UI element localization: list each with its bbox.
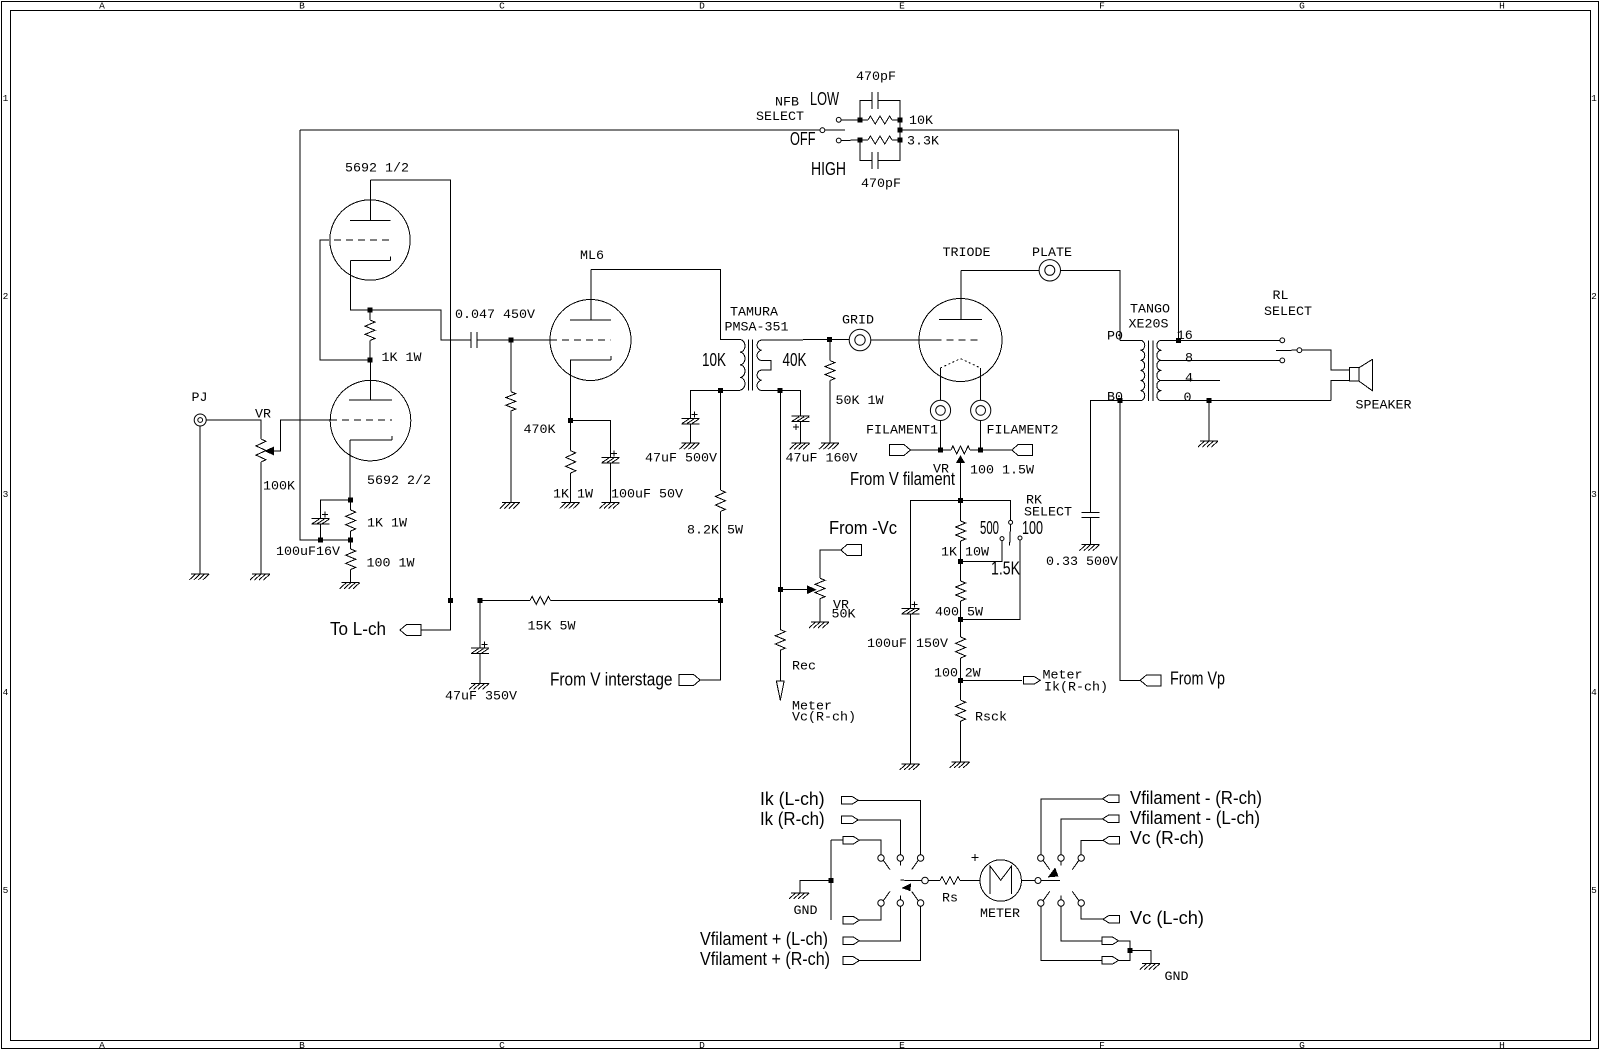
arrow to meter Vc (open) (776, 681, 784, 700)
label METER (980, 907, 1020, 922)
label To L-ch (330, 619, 386, 639)
label Meter (Vc) (792, 700, 832, 715)
resistor 400 5W (956, 561, 966, 619)
tap label 8 (1185, 352, 1193, 367)
wire P0 lead (1120, 339, 1140, 341)
label TAMURA (730, 306, 778, 321)
switch SW-NFB throw LOW (836, 117, 841, 122)
svg-text:3: 3 (1591, 489, 1597, 500)
label Ik (L-ch) (760, 789, 825, 809)
ground (meter GND right) (1140, 964, 1160, 970)
wire bottom flag to contact (859, 906, 881, 920)
meter + polarity mark (972, 854, 979, 861)
wire B0 to 0.33 cap branch (1091, 401, 1121, 513)
junction 0 tap ground node (1207, 398, 1212, 403)
junction T1 secondary bottom node (778, 388, 783, 393)
switch SW-A contact stubs (883, 860, 918, 900)
wire Vfil+L to contact (859, 906, 900, 941)
junction 47uF 350V node (478, 598, 483, 603)
wire meter to SW-B pole (1021, 880, 1035, 882)
svg-text:E: E (899, 1040, 905, 1050)
junction GRID node (827, 337, 832, 342)
wire contact to GND tag upper (1061, 906, 1103, 941)
wire 0.33 cap to ground (1090, 518, 1092, 545)
wire GRID node to terminal (830, 339, 850, 341)
value 47uF 350V (445, 690, 517, 705)
switch SW-A lever arrow (903, 884, 911, 891)
svg-text:HIGH: HIGH (811, 159, 846, 179)
junction RC network bottom-right (898, 138, 903, 143)
svg-text:H: H (1499, 1, 1505, 12)
switch SW-A pole contact (922, 877, 929, 884)
switch SW-A contact 2 (897, 855, 903, 861)
switch SW-A contact 4 (878, 900, 884, 906)
connector flag Meter Ik(R-ch) (1024, 677, 1040, 685)
wire 100uF 150V to ground (910, 614, 912, 764)
svg-text:P0: P0 (1107, 330, 1123, 345)
junction RC network top-right (898, 118, 903, 123)
wire Ik L-ch to contact (858, 800, 920, 855)
switch SW-A contact 5 (897, 900, 903, 906)
svg-text:2: 2 (1591, 291, 1597, 302)
wire 47uF 500V to ground (690, 424, 692, 443)
wire 0 tap rail (1161, 400, 1331, 402)
wire top flag to contact (859, 840, 881, 855)
value 470pF (upper) (856, 70, 896, 85)
svg-text:100: 100 (1022, 518, 1043, 538)
switch SW-RK throw 100 (1018, 536, 1022, 540)
wire cathode node to RK switch pole (961, 500, 1011, 520)
svg-text:5692 1/2: 5692 1/2 (345, 162, 409, 177)
svg-text:Ik(R-ch): Ik(R-ch) (1044, 681, 1108, 696)
value 47uF 160V (786, 452, 858, 467)
label LOW (810, 89, 839, 109)
junction B+ node (To L-ch) (448, 598, 453, 603)
resistor 1K 10W (956, 500, 966, 561)
wire LOW throw to RC network (841, 119, 860, 121)
switch SW-RL throw 16 (1280, 338, 1285, 343)
wire 0 tap to ground (1208, 401, 1210, 441)
label VR (50K) (833, 599, 849, 614)
wire B0 to From Vp flag (1120, 401, 1140, 681)
svg-text:2W: 2W (965, 667, 981, 682)
svg-text:SPEAKER: SPEAKER (1356, 399, 1412, 414)
svg-text:Ik (R-ch): Ik (R-ch) (760, 809, 825, 829)
svg-text:TAMURA: TAMURA (730, 306, 778, 321)
wire contact to GND tag lower (1041, 906, 1103, 960)
switch SW-B contact 4 (1038, 900, 1044, 906)
value 40K (secondary) (783, 350, 807, 370)
label SPEAKER (1356, 399, 1412, 414)
svg-text:8.2K 5W: 8.2K 5W (687, 524, 743, 539)
wire 100uF 50V to ground (610, 463, 612, 503)
wire To L-ch flag (421, 600, 450, 630)
svg-text:1K 1W: 1K 1W (382, 351, 422, 366)
resistor 100 2W (956, 620, 966, 681)
wire ML6 plate to interstage primary (591, 269, 740, 339)
label From V interstage (550, 670, 673, 690)
svg-text:5692 2/2: 5692 2/2 (367, 474, 431, 489)
wire SW-A pole to Rs (928, 880, 940, 882)
wire 5692 2/2 cathode lead (349, 440, 351, 500)
junction V1b cathode resistor bottom (348, 538, 353, 543)
resistor Rs (940, 877, 960, 885)
label GND (left) (794, 904, 818, 919)
svg-text:FILAMENT1: FILAMENT1 (866, 424, 938, 439)
tap label 4 (1185, 372, 1193, 387)
switch SW-NFB pole contact (820, 128, 825, 133)
svg-text:A: A (99, 1040, 105, 1050)
wire to Meter Ik flag (961, 679, 1023, 681)
capacitor 47uF 350V (471, 642, 489, 654)
svg-text:470pF: 470pF (861, 177, 901, 192)
connector flag GND feed (top) (843, 836, 860, 844)
value 1K 1W (V1b) (367, 517, 407, 532)
wire 500 throw to node (961, 541, 1002, 562)
speaker (1349, 359, 1372, 391)
connector flag Vfilament + (L-ch) (843, 937, 860, 945)
label Meter (Ik) (1043, 669, 1083, 684)
wire PLATE terminal to OPT P0 (1061, 270, 1121, 340)
wire T1 secondary bottom down to wiper node (779, 391, 781, 590)
ground (100 1W) (340, 583, 360, 589)
connector flag meter GND (lower) (1102, 957, 1119, 965)
wiper arrow VR 100K (266, 447, 274, 454)
tube ML6 (V2) (550, 269, 631, 380)
svg-text:8: 8 (1185, 352, 1193, 367)
svg-text:From Vp: From Vp (1170, 669, 1225, 689)
resistor 100 1W (346, 540, 356, 583)
connector flag Vfilament - (R-ch) (1103, 795, 1120, 803)
wire flag to FILAMENT1 node (911, 449, 941, 451)
wire T2 primary bottom to B0 (1120, 400, 1140, 402)
wire ML6 cathode lead (569, 360, 572, 421)
ground (VR 100K) (250, 574, 270, 580)
label Rs (942, 892, 958, 907)
svg-text:100: 100 (934, 667, 958, 682)
wire to 47uF 160V cap (780, 391, 801, 417)
value 47uF 500V (645, 452, 717, 467)
wire HIGH throw to RC network (841, 139, 860, 142)
label P0 (1107, 330, 1123, 345)
wire T1 secondary top to GRID node (762, 339, 830, 341)
connector flag Ik (L-ch) (842, 797, 859, 805)
svg-text:Vfilament + (L-ch): Vfilament + (L-ch) (700, 929, 828, 949)
ground (meter GND left) (789, 893, 809, 899)
wire lower GND tag to junction (1119, 951, 1130, 961)
ground (50K 1W) (819, 443, 839, 449)
transformer T1 secondary winding with tap step (757, 340, 771, 391)
ground (470K) (500, 503, 520, 509)
label 5692 2/2 (367, 474, 431, 489)
wire Ik R-ch to contact (858, 820, 900, 855)
switch SW-B contact 3 (1078, 855, 1084, 861)
junction 1K-10W / 400-5W node (958, 559, 963, 564)
switch SW-A contact 6 (917, 900, 923, 906)
svg-text:0: 0 (1184, 391, 1192, 406)
wire NFB output to OPT 16-ohm tap (900, 130, 1179, 340)
wiper arrow VR 50K (808, 586, 816, 593)
svg-text:TRIODE: TRIODE (943, 246, 991, 261)
svg-text:Vfilament - (L-ch): Vfilament - (L-ch) (1130, 808, 1260, 828)
value 470pF (lower) (861, 177, 901, 192)
svg-text:GRID: GRID (842, 314, 874, 329)
switch SW-B contact 1 (1038, 855, 1044, 861)
switch SW-RL pole contact (1297, 348, 1302, 353)
terminal FILAMENT2 (971, 400, 991, 420)
switch SW-RL lever (1276, 349, 1297, 351)
label GRID (842, 314, 874, 329)
label Vfilament - (L-ch) (1130, 808, 1260, 828)
wire 10K-3.3K right bus (899, 120, 901, 140)
svg-text:150V: 150V (916, 637, 948, 652)
terminal GRID (849, 329, 871, 351)
junction ML6 grid node (509, 338, 514, 343)
svg-text:0.047 450V: 0.047 450V (455, 308, 535, 323)
ground (100uF 150V) (900, 764, 920, 770)
label VR (hum pot) (933, 463, 949, 478)
label OFF (790, 129, 816, 149)
value 1K 1W (ML6) (553, 488, 593, 503)
svg-text:RL: RL (1273, 289, 1289, 304)
connector flag From V interstage (679, 675, 700, 686)
value 100 1.5W (970, 464, 1034, 479)
svg-text:Rec: Rec (792, 660, 816, 675)
svg-text:GND: GND (794, 904, 818, 919)
wire GRID terminal to TRIODE grid (871, 339, 935, 341)
capacitor 100uF 50V (602, 451, 620, 464)
value 150V part2 (916, 637, 948, 652)
wire RL pole to speaker (1302, 350, 1350, 370)
svg-text:100uF 50V: 100uF 50V (611, 488, 683, 503)
connector flag From V filament (right) (1012, 445, 1033, 456)
svg-text:5: 5 (1591, 885, 1597, 896)
connector flag Vfilament - (L-ch) (1103, 815, 1120, 823)
wire from upper 470pF cap (878, 101, 900, 121)
svg-text:Vfilament - (R-ch): Vfilament - (R-ch) (1130, 788, 1262, 808)
switch SW-B contact 6 (1078, 900, 1084, 906)
label Vc(R-ch) (792, 711, 856, 726)
label HIGH (811, 159, 846, 179)
switch SW-A contact 1 (878, 855, 884, 861)
switch SW-RK pole contact (1009, 520, 1013, 524)
svg-text:470K: 470K (524, 423, 556, 438)
junction FILAMENT1 node (938, 448, 943, 453)
svg-text:Vc(R-ch): Vc(R-ch) (792, 711, 856, 726)
label Rec (792, 660, 816, 675)
capacitor 47uF 500V (682, 412, 700, 425)
svg-text:D: D (699, 1040, 705, 1050)
svg-text:F: F (1099, 1, 1105, 12)
svg-text:E: E (899, 1, 905, 12)
ground (0.33 500V) (1080, 545, 1100, 551)
label Vc (R-ch) (1130, 828, 1204, 848)
svg-text:3.3K: 3.3K (907, 135, 939, 150)
wire ML6 cathode to 100uF 50V (571, 421, 611, 458)
label SELECT (RK) (1024, 506, 1072, 521)
ground (47uF 160V) (790, 443, 810, 449)
wire TRIODE plate to PLATE terminal (961, 269, 1039, 271)
junction V1a grid / V2 plate node (368, 358, 373, 363)
svg-text:470pF: 470pF (856, 70, 896, 85)
svg-text:4: 4 (1185, 372, 1193, 387)
connector flag meter GND (upper) (1102, 937, 1119, 945)
label Rsck (975, 711, 1007, 726)
value 1K 10W (941, 546, 989, 561)
wire 16 tap to RL contact (1161, 339, 1280, 341)
connector flag Vc (L-ch) (1103, 915, 1120, 923)
label Vc (L-ch) (1130, 908, 1204, 928)
junction 100uF16V bottom (318, 538, 323, 543)
svg-text:XE20S: XE20S (1129, 318, 1169, 333)
svg-text:500: 500 (980, 518, 999, 538)
svg-text:C: C (499, 1, 505, 12)
svg-text:47uF 350V: 47uF 350V (445, 690, 517, 705)
ground (Rsck) (950, 762, 970, 768)
label B0 (1107, 391, 1123, 406)
switch SW-B lever (1041, 879, 1060, 881)
ground (VR 50K) (809, 622, 829, 628)
svg-text:C: C (499, 1040, 505, 1050)
svg-text:100uF: 100uF (867, 637, 907, 652)
svg-text:2: 2 (3, 291, 9, 302)
transformer T1 core (748, 340, 752, 391)
value 100 2W part2 (965, 667, 981, 682)
switch SW-B lever arrow (1049, 869, 1058, 877)
svg-text:Vfilament + (R-ch): Vfilament + (R-ch) (700, 949, 830, 969)
connector flag Vc (R-ch) (1103, 837, 1120, 845)
svg-text:From V interstage: From V interstage (550, 670, 673, 690)
label SELECT (NFB) (756, 110, 804, 125)
connector flag From V filament (left) (890, 445, 911, 456)
svg-text:METER: METER (980, 907, 1020, 922)
value 100uF 50V (611, 488, 683, 503)
wire 100uF16V to bottom node (320, 524, 322, 540)
junction RC network bottom-left (858, 138, 863, 143)
label From -Vc (829, 518, 897, 538)
svg-text:FILAMENT2: FILAMENT2 (987, 424, 1059, 439)
svg-text:4: 4 (1591, 687, 1597, 698)
switch SW-NFB throw HIGH (836, 138, 841, 143)
junction From V interstage node (718, 598, 723, 603)
resistor 15K 5W (480, 596, 720, 604)
potentiometer VR 50K (815, 578, 825, 622)
svg-text:3: 3 (3, 489, 9, 500)
wire coupling cap to ML6 grid node (477, 339, 511, 341)
svg-text:B: B (299, 1040, 305, 1050)
wire ML6 grid lead (511, 339, 550, 341)
svg-text:VR: VR (255, 408, 271, 423)
capacitor 100uF16V (312, 512, 330, 525)
label ML6 (580, 249, 604, 264)
wire to 47uF 500V cap (691, 391, 721, 419)
wire Rs to meter (960, 880, 980, 882)
resistor 1K 1W (V1b cathode) (346, 500, 356, 540)
wire T1 primary bottom (721, 390, 740, 392)
tube TRIODE (V3 output) (919, 270, 1002, 381)
junction RC network top-left (858, 118, 863, 123)
resistor 50K 1W (825, 340, 835, 444)
svg-text:10K: 10K (702, 350, 726, 370)
tap label 16 (1177, 329, 1193, 344)
connector flag GND feed (bottom) (843, 916, 860, 924)
svg-text:47uF 160V: 47uF 160V (786, 452, 858, 467)
svg-text:5: 5 (3, 885, 9, 896)
value 3.3K (907, 135, 939, 150)
junction 400-5W / 100-2W node (958, 617, 963, 622)
svg-text:TANGO: TANGO (1130, 303, 1170, 318)
svg-text:NFB: NFB (775, 96, 799, 111)
value 100uF part1 (867, 637, 907, 652)
wire contact to Vfilament - L-ch (1061, 819, 1103, 855)
connector flag To L-ch (400, 625, 421, 636)
label VR (100K pot) (255, 408, 271, 423)
resistor 10K (NFB) (860, 116, 900, 124)
capacitor 100uF 150V (902, 602, 920, 615)
label SELECT (RL) (1264, 305, 1312, 320)
ground (100uF 50V) (600, 503, 620, 509)
label From Vp (1170, 669, 1225, 689)
label Vfilament - (R-ch) (1130, 788, 1262, 808)
resistor 8.2K 5W (715, 391, 725, 601)
transformer T1 primary winding (740, 340, 745, 390)
switch SW-RK lever (1010, 524, 1011, 545)
wire V1 cathode node to coupling cap (370, 310, 471, 340)
wire contact to Vfilament - R-ch (1041, 799, 1103, 855)
resistor 3.3K (NFB) (860, 136, 900, 144)
wire 47uF 350V to ground (479, 654, 481, 684)
capacitor 0.33 500V (1082, 512, 1100, 517)
capacitor 0.047 450V (471, 332, 477, 348)
svg-text:100uF16V: 100uF16V (276, 545, 340, 560)
wire From -Vc flag to VR 50K (820, 550, 841, 578)
transformer T2 secondary winding (1157, 340, 1162, 400)
label NFB (775, 96, 799, 111)
value 0.33 500V (1046, 555, 1118, 570)
junction GND bus (828, 878, 833, 883)
svg-text:G: G (1299, 1, 1305, 12)
label FILAMENT2 (987, 424, 1059, 439)
potentiometer VR 100K (256, 439, 266, 574)
tube 5692 1/2 (V1a) (322, 180, 410, 280)
resistor 1K 1W (V1a cathode) (365, 310, 375, 360)
switch SW-B contact 5 (1058, 900, 1064, 906)
svg-text:4: 4 (3, 687, 9, 698)
svg-text:From -Vc: From -Vc (829, 518, 897, 538)
svg-text:B: B (299, 1, 305, 12)
junction T1 primary bottom node (718, 388, 723, 393)
connector flag Ik (R-ch) (842, 816, 859, 824)
wire to lower 470pF cap (860, 140, 872, 161)
ground (OPT 0 tap) (1198, 441, 1218, 447)
junction FILAMENT2 node (978, 448, 983, 453)
label Vfilament + (L-ch) (700, 929, 828, 949)
label FILAMENT1 (866, 424, 938, 439)
junction NFB output node (898, 128, 903, 133)
wire filament2 lead (980, 368, 982, 400)
wire 5692 1/2 grid lead (320, 240, 370, 360)
value 100 1W (367, 557, 415, 572)
value 50K (832, 608, 856, 623)
capacitor 470pF (upper) (872, 92, 878, 109)
ground (47uF 350V) (469, 683, 489, 689)
label Ik(R-ch) (1044, 681, 1108, 696)
svg-text:47uF 500V: 47uF 500V (645, 452, 717, 467)
label Vfilament + (R-ch) (700, 949, 830, 969)
wire 8 tap to RL contact (1161, 359, 1280, 361)
meter M (moving-coil) (980, 860, 1021, 901)
wire PJ to VR 100K (206, 420, 261, 439)
